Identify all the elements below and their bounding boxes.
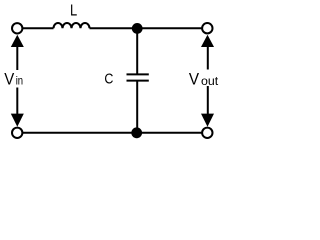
terminal circle bottom-left <box>12 128 22 138</box>
svg-text:in: in <box>16 74 23 88</box>
Vout arrow up head <box>201 35 214 47</box>
capacitor C top plate <box>127 73 149 75</box>
node junction bottom (dot) <box>131 127 142 138</box>
svg-text:L: L <box>70 2 78 19</box>
terminal circle bottom-right <box>202 128 212 138</box>
terminal circle top-left <box>12 23 22 33</box>
svg-text:C: C <box>104 72 113 88</box>
wire capacitor bottom lead <box>136 81 138 133</box>
Vout arrow upper shaft <box>207 46 209 70</box>
svg-text:V: V <box>189 71 199 89</box>
wire bottom rail <box>21 132 204 134</box>
Vout arrow down head <box>201 114 214 127</box>
wire top rail right (inductor to output terminal) <box>90 27 204 29</box>
terminal circle top-right <box>202 23 212 33</box>
Vout arrow lower shaft <box>207 86 209 115</box>
svg-text:V: V <box>4 71 14 89</box>
capacitor C bottom plate <box>127 80 149 82</box>
Vin arrow lower shaft <box>16 88 18 115</box>
wire top rail left (input terminal to inductor) <box>21 27 54 29</box>
node junction top (dot) <box>132 23 143 34</box>
wire capacitor top lead <box>136 28 138 74</box>
Vin arrow upper shaft <box>16 46 18 70</box>
Vin arrow up head <box>11 35 24 47</box>
inductor L <box>54 23 90 28</box>
Vin arrow down head <box>11 114 24 127</box>
svg-text:out: out <box>201 74 219 88</box>
